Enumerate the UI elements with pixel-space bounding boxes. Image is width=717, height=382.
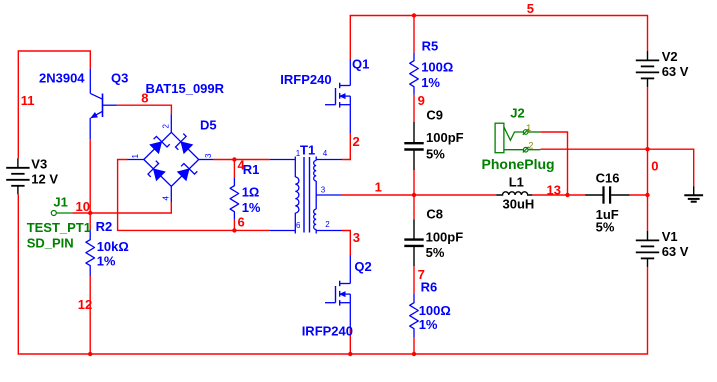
svg-text:100Ω: 100Ω xyxy=(421,59,453,74)
svg-text:PhonePlug: PhonePlug xyxy=(482,156,555,172)
svg-text:100pF: 100pF xyxy=(426,130,464,145)
svg-text:L1: L1 xyxy=(509,175,524,190)
svg-text:1: 1 xyxy=(526,123,531,133)
svg-text:1%: 1% xyxy=(97,254,116,269)
svg-text:R1: R1 xyxy=(243,162,260,177)
svg-text:2N3904: 2N3904 xyxy=(39,71,85,86)
svg-text:8: 8 xyxy=(141,91,148,106)
svg-text:IRFP240: IRFP240 xyxy=(280,72,331,87)
svg-text:1%: 1% xyxy=(421,75,440,90)
svg-text:12: 12 xyxy=(78,297,92,312)
svg-text:V2: V2 xyxy=(662,49,678,64)
svg-text:5%: 5% xyxy=(426,245,445,260)
svg-text:10: 10 xyxy=(76,199,90,214)
svg-text:100pF: 100pF xyxy=(426,229,464,244)
svg-text:R2: R2 xyxy=(96,219,113,234)
svg-text:6: 6 xyxy=(238,215,245,230)
svg-text:11: 11 xyxy=(21,93,35,108)
svg-text:63 V: 63 V xyxy=(662,244,689,259)
svg-text:1: 1 xyxy=(296,149,301,158)
svg-text:1Ω: 1Ω xyxy=(242,185,260,200)
svg-text:6: 6 xyxy=(296,221,301,230)
svg-text:T1: T1 xyxy=(300,143,315,158)
svg-text:2: 2 xyxy=(353,134,360,149)
svg-text:V1: V1 xyxy=(662,229,678,244)
svg-text:1: 1 xyxy=(375,180,382,195)
svg-text:0: 0 xyxy=(651,159,658,174)
svg-text:1%: 1% xyxy=(242,200,261,215)
svg-text:C8: C8 xyxy=(426,207,443,222)
svg-text:2: 2 xyxy=(162,124,171,129)
svg-text:1: 1 xyxy=(131,154,140,159)
svg-text:Q1: Q1 xyxy=(352,57,369,72)
svg-text:V3: V3 xyxy=(31,157,47,172)
svg-text:IRFP240: IRFP240 xyxy=(302,323,353,338)
svg-text:Q2: Q2 xyxy=(354,259,371,274)
svg-text:2: 2 xyxy=(325,220,330,229)
svg-text:BAT15_099R: BAT15_099R xyxy=(146,81,225,96)
svg-text:TEST_PT1: TEST_PT1 xyxy=(27,220,91,235)
svg-text:100Ω: 100Ω xyxy=(419,303,451,318)
svg-text:4: 4 xyxy=(162,196,171,201)
svg-text:D5: D5 xyxy=(200,117,217,132)
svg-text:C16: C16 xyxy=(596,170,620,185)
svg-text:4: 4 xyxy=(323,149,328,158)
svg-text:J2: J2 xyxy=(510,105,524,120)
svg-text:3: 3 xyxy=(353,230,360,245)
svg-text:10kΩ: 10kΩ xyxy=(97,239,129,254)
svg-text:63 V: 63 V xyxy=(662,64,689,79)
svg-text:R5: R5 xyxy=(422,39,439,54)
svg-text:5%: 5% xyxy=(426,147,445,162)
svg-text:5: 5 xyxy=(527,1,534,16)
svg-text:1%: 1% xyxy=(419,317,438,332)
svg-text:5%: 5% xyxy=(596,220,615,235)
svg-text:3: 3 xyxy=(321,186,326,195)
svg-text:4: 4 xyxy=(238,158,246,173)
svg-text:J1: J1 xyxy=(53,195,67,210)
svg-text:7: 7 xyxy=(418,267,425,282)
svg-text:12 V: 12 V xyxy=(31,172,58,187)
svg-text:13: 13 xyxy=(547,182,561,197)
svg-text:SD_PIN: SD_PIN xyxy=(27,236,74,251)
svg-text:Q3: Q3 xyxy=(111,70,128,85)
svg-text:2: 2 xyxy=(528,141,533,151)
svg-text:C9: C9 xyxy=(426,107,443,122)
svg-text:3: 3 xyxy=(204,153,213,158)
svg-text:30uH: 30uH xyxy=(503,197,535,212)
svg-text:9: 9 xyxy=(418,93,425,108)
